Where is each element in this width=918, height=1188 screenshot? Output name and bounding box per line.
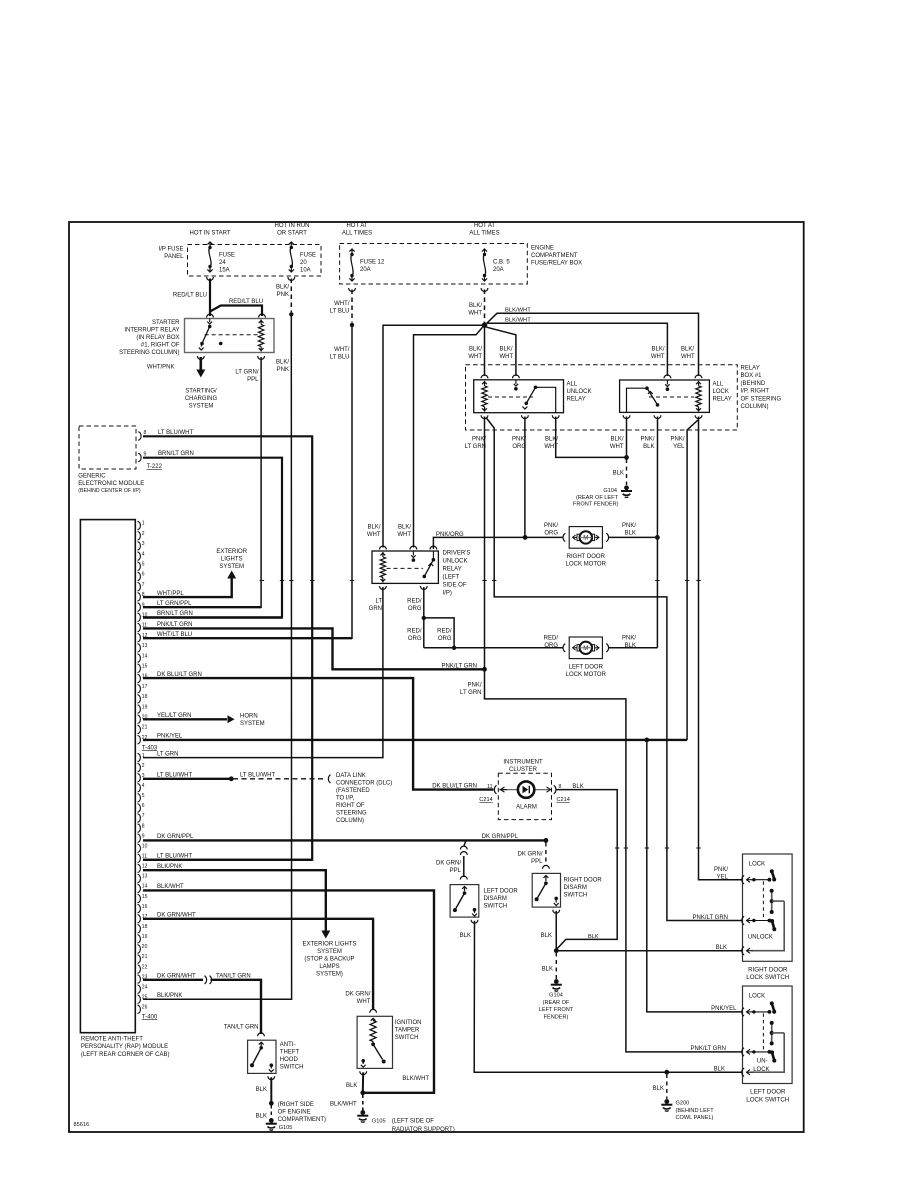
svg-text:THEFT: THEFT	[280, 1049, 300, 1055]
svg-text:(LEFT SIDE OF: (LEFT SIDE OF	[392, 1119, 435, 1125]
svg-text:CLUSTER: CLUSTER	[509, 767, 538, 773]
relay box #1 dashed enclosure	[466, 365, 738, 430]
svg-text:LT BLU/WHT: LT BLU/WHT	[158, 430, 193, 436]
remote anti-theft personality (RAP) module box	[80, 520, 135, 1033]
svg-text:IGNITION: IGNITION	[395, 1020, 422, 1026]
svg-text:DK GRN/PPL: DK GRN/PPL	[482, 834, 519, 840]
svg-text:LOCK: LOCK	[749, 994, 765, 1000]
svg-text:WHT: WHT	[610, 444, 624, 450]
all lock relay	[664, 375, 671, 378]
alarm indicator lamp	[499, 789, 519, 791]
wire PNK/BLK from all-lock relay to door lock motors	[656, 417, 658, 648]
wire BRN/LT GRN RAP pin 10	[143, 616, 282, 618]
svg-text:TAN/LT GRN: TAN/LT GRN	[216, 974, 251, 980]
svg-text:BRN/LT GRN: BRN/LT GRN	[158, 451, 194, 457]
svg-text:CHARGING: CHARGING	[185, 396, 218, 402]
svg-text:ORG: ORG	[408, 636, 422, 642]
wire PNK/BLK right motor to junction	[608, 536, 656, 538]
svg-text:BLK/: BLK/	[398, 525, 411, 531]
wire BLK/PNK from fuse 20 to RAP pin 25	[290, 279, 292, 313]
wire LT BLU/WHT RAP T-400 pin 11	[143, 859, 312, 861]
wire BLK/WHT upper branch to all-lock relay coil	[487, 313, 699, 376]
svg-text:ELECTRONIC MODULE: ELECTRONIC MODULE	[78, 481, 144, 487]
svg-text:(STOP & BACKUP: (STOP & BACKUP	[304, 957, 354, 963]
wire BLK dashed to ground G105	[270, 1105, 272, 1119]
svg-text:RELAY: RELAY	[443, 567, 462, 573]
svg-text:RIGHT DOOR: RIGHT DOOR	[567, 554, 606, 560]
svg-text:LEFT DOOR: LEFT DOOR	[569, 664, 604, 670]
svg-text:PNK/LT GRN: PNK/LT GRN	[691, 1046, 726, 1052]
svg-text:9: 9	[142, 833, 145, 839]
svg-text:RADIATOR SUPPORT): RADIATOR SUPPORT)	[392, 1127, 455, 1133]
svg-text:COMPARTMENT: COMPARTMENT	[531, 253, 578, 259]
svg-text:DRIVER'S: DRIVER'S	[443, 551, 471, 557]
svg-text:BLK: BLK	[714, 1067, 725, 1073]
svg-text:WHT: WHT	[681, 354, 695, 360]
instrument cluster dashed box	[498, 773, 551, 819]
svg-text:WHT/LT BLU: WHT/LT BLU	[157, 632, 192, 638]
svg-text:RIGHT OF: RIGHT OF	[336, 803, 365, 809]
svg-text:LT BLU: LT BLU	[330, 355, 350, 361]
junction PNK/YEL branch to left door lock switch	[644, 738, 649, 743]
wire BLK/WHT second branch to all-lock relay switch	[488, 323, 668, 376]
wire PNK/ORG from driver's unlock relay to right door lock motor	[433, 537, 563, 549]
svg-text:BLK: BLK	[653, 1086, 664, 1092]
svg-text:COLUMN): COLUMN)	[336, 818, 364, 824]
svg-text:10A: 10A	[300, 268, 311, 274]
wire BLK to ground G200	[666, 1074, 668, 1099]
svg-text:(REAR OF: (REAR OF	[543, 1000, 570, 1006]
svg-text:24: 24	[219, 260, 226, 266]
svg-text:SIDE OF: SIDE OF	[443, 583, 467, 589]
generic electronic module dashed box	[79, 426, 136, 469]
svg-text:BLK/PNK: BLK/PNK	[157, 993, 182, 999]
svg-text:15: 15	[142, 894, 148, 900]
svg-text:21: 21	[142, 725, 148, 731]
svg-text:19: 19	[142, 934, 148, 940]
svg-text:PERSONALITY (RAP) MODULE: PERSONALITY (RAP) MODULE	[81, 1044, 168, 1050]
svg-text:SWITCH: SWITCH	[484, 904, 508, 910]
right door disarm switch	[543, 865, 550, 868]
svg-text:PNK/: PNK/	[670, 437, 684, 443]
svg-text:17: 17	[142, 684, 148, 690]
svg-text:2: 2	[142, 531, 145, 537]
svg-text:LEFT DOOR: LEFT DOOR	[484, 889, 519, 895]
svg-text:SWITCH: SWITCH	[395, 1035, 419, 1041]
svg-text:26: 26	[142, 1005, 148, 1011]
starter interrupt relay coil	[259, 321, 264, 323]
svg-text:HOT AT: HOT AT	[474, 223, 495, 229]
svg-text:FRONT FENDER): FRONT FENDER)	[573, 502, 619, 508]
svg-text:BLK: BLK	[460, 933, 471, 939]
svg-text:OF ENGINE: OF ENGINE	[278, 1110, 311, 1116]
ground G104 rear of left front fender (lower)	[554, 979, 559, 984]
svg-text:SYSTEM): SYSTEM)	[316, 972, 343, 978]
svg-text:ORG: ORG	[544, 531, 558, 537]
wire LT GRN/PPL from relay to RAP pin 9	[143, 357, 261, 607]
svg-text:SWITCH: SWITCH	[280, 1064, 304, 1070]
junction BLK at G105	[269, 1101, 274, 1106]
right door lock motor	[563, 533, 565, 541]
circuit breaker C.B. 5 20A	[484, 249, 486, 253]
svg-text:15A: 15A	[219, 268, 230, 274]
svg-text:24: 24	[142, 984, 148, 990]
svg-text:WHT: WHT	[500, 354, 514, 360]
svg-text:10: 10	[142, 843, 148, 849]
svg-text:BLK: BLK	[541, 933, 552, 939]
connector T-222 pin 9	[138, 453, 141, 461]
svg-text:ORG: ORG	[544, 643, 558, 649]
svg-text:ALL: ALL	[713, 382, 724, 388]
wire DK BLU/LT GRN RAP pin 16 to instrument cluster	[143, 678, 494, 790]
connector T-222 pin 8	[138, 432, 141, 440]
svg-text:BLK: BLK	[625, 643, 636, 649]
svg-text:STEERING COLUMN): STEERING COLUMN)	[119, 350, 179, 356]
svg-text:HOOD: HOOD	[280, 1057, 299, 1063]
svg-text:RELAY: RELAY	[713, 397, 732, 403]
wire BLK/PNK RAP T-400 pin 12 to stop lamps	[143, 870, 326, 931]
wire DK GRN/PPL RAP T-400 pin 9 to disarm switches	[143, 839, 545, 841]
svg-text:RED/: RED/	[407, 629, 422, 635]
svg-text:5: 5	[142, 793, 145, 799]
svg-text:PANEL: PANEL	[164, 254, 184, 260]
svg-text:PNK/: PNK/	[544, 523, 558, 529]
svg-text:EXTERIOR LIGHTS: EXTERIOR LIGHTS	[302, 942, 356, 948]
svg-text:STARTER: STARTER	[152, 320, 180, 326]
svg-text:BLK/WHT: BLK/WHT	[505, 318, 531, 324]
alignment tick marks	[260, 580, 264, 582]
wire LT GRN from driver's unlock relay to RAP pin 1 (T-403)	[143, 587, 383, 758]
wire BLK/WHT down to all-unlock relay coil	[484, 325, 486, 376]
svg-text:LIGHTS: LIGHTS	[221, 557, 243, 563]
svg-text:LOCK: LOCK	[749, 862, 765, 868]
svg-text:BOX #1: BOX #1	[741, 373, 763, 379]
svg-text:BLK/: BLK/	[367, 525, 380, 531]
ground G105 left side of radiator support	[360, 1110, 365, 1115]
svg-text:11: 11	[487, 784, 492, 790]
svg-text:BLK/WHT: BLK/WHT	[330, 1102, 357, 1108]
svg-text:BLK/PNK: BLK/PNK	[157, 864, 182, 870]
svg-text:BLK: BLK	[643, 444, 654, 450]
svg-text:WHT: WHT	[397, 532, 411, 538]
svg-text:18: 18	[142, 924, 148, 930]
svg-text:BLK: BLK	[256, 1087, 267, 1093]
wire BLK from cluster to ground net	[556, 790, 618, 950]
svg-text:PPL: PPL	[247, 377, 259, 383]
svg-text:STEERING: STEERING	[336, 811, 367, 817]
svg-text:6: 6	[142, 572, 145, 578]
ground G104 rear of left front fender	[624, 485, 629, 490]
wire LT BLU/WHT RAP T-400 pin 3 to data link connector	[143, 778, 230, 780]
svg-text:ALL TIMES: ALL TIMES	[342, 231, 372, 237]
inline connector on pin 23 wire	[205, 976, 207, 984]
svg-text:PNK/ORG: PNK/ORG	[436, 532, 464, 538]
svg-text:LOCK: LOCK	[753, 1067, 769, 1073]
svg-text:13: 13	[142, 874, 148, 880]
svg-text:(LEFT: (LEFT	[443, 575, 460, 581]
wire WHT/LT BLU RAP pin 12	[143, 637, 352, 639]
svg-text:BLK/: BLK/	[610, 437, 623, 443]
svg-text:FUSE: FUSE	[300, 253, 316, 259]
svg-text:RED/: RED/	[437, 629, 452, 635]
wire DK GRN/WHT RAP T-400 pin 17 to ignition tamper switch	[143, 919, 373, 1010]
svg-text:BLK/: BLK/	[681, 347, 694, 353]
wire BLK/WHT from all-unlock relay to G104 junction	[556, 417, 626, 458]
wire RED/LT BLU branch to relay coil	[210, 306, 262, 317]
svg-text:YEL/LT GRN: YEL/LT GRN	[157, 713, 191, 719]
svg-text:5: 5	[142, 562, 145, 568]
ground G105 right side of engine compartment	[269, 1118, 274, 1123]
anti-theft hood switch	[258, 1033, 265, 1036]
all unlock relay	[481, 375, 488, 378]
svg-text:G105: G105	[372, 1119, 386, 1125]
svg-text:DATA LINK: DATA LINK	[336, 773, 366, 779]
svg-text:I/P, RIGHT: I/P, RIGHT	[741, 389, 770, 395]
wire PNK/ORG from all-unlock relay to motor line	[524, 417, 526, 538]
svg-text:DK BLU/LT GRN: DK BLU/LT GRN	[432, 783, 477, 789]
svg-text:BLK/: BLK/	[469, 347, 482, 353]
svg-text:M: M	[583, 536, 588, 542]
junction BLK/WHT main splice	[482, 322, 488, 328]
svg-text:DK GRN/: DK GRN/	[436, 861, 461, 867]
svg-text:PNK/LT GRN: PNK/LT GRN	[157, 622, 192, 628]
svg-text:SYSTEM: SYSTEM	[189, 404, 214, 410]
svg-text:BLK: BLK	[542, 967, 553, 973]
svg-text:SYSTEM: SYSTEM	[317, 949, 342, 955]
svg-text:PNK/: PNK/	[640, 437, 654, 443]
svg-text:85616: 85616	[74, 1122, 90, 1128]
svg-text:LOCK MOTOR: LOCK MOTOR	[566, 561, 607, 567]
svg-text:PNK/: PNK/	[622, 636, 636, 642]
svg-text:HOT AT: HOT AT	[346, 223, 367, 229]
svg-text:22: 22	[142, 964, 148, 970]
svg-text:13: 13	[142, 643, 148, 649]
svg-text:COLUMN): COLUMN)	[741, 404, 769, 410]
svg-text:BLK/: BLK/	[276, 360, 289, 366]
wire PNK/LT GRN from all-unlock relay down	[484, 417, 486, 670]
svg-text:ORG: ORG	[408, 606, 422, 612]
svg-text:16: 16	[142, 904, 148, 910]
svg-text:REMOTE ANTI-THEFT: REMOTE ANTI-THEFT	[81, 1037, 143, 1043]
svg-text:CONNECTOR (DLC): CONNECTOR (DLC)	[336, 781, 392, 787]
wire PNK/LT GRN branch to right door lock switch	[486, 418, 742, 921]
page border frame	[69, 222, 804, 1132]
wire BLK from right door disarm switch	[555, 911, 557, 950]
svg-text:PNK: PNK	[277, 292, 289, 298]
svg-text:BLK/WHT: BLK/WHT	[402, 1076, 429, 1082]
svg-text:ALL TIMES: ALL TIMES	[469, 231, 499, 237]
svg-text:UNLOCK: UNLOCK	[443, 559, 468, 565]
starter interrupt relay	[207, 314, 214, 317]
wire BLK to right door lock switch	[556, 950, 741, 952]
svg-text:(BEHIND CENTER OF I/P): (BEHIND CENTER OF I/P)	[78, 488, 141, 494]
svg-text:LT GRN/: LT GRN/	[235, 370, 258, 376]
svg-text:I/P FUSE: I/P FUSE	[159, 247, 184, 253]
svg-text:TO I/P,: TO I/P,	[336, 796, 354, 802]
wire BLK/WHT dashed to ground	[362, 1095, 364, 1111]
wire BLK from hood switch	[270, 1077, 272, 1101]
svg-text:6: 6	[142, 803, 145, 809]
svg-text:14: 14	[142, 884, 148, 890]
svg-text:LT BLU/WHT: LT BLU/WHT	[157, 773, 192, 779]
wire YEL/LT GRN RAP pin 20 to horn system	[143, 718, 227, 720]
svg-text:C214: C214	[479, 797, 492, 803]
fuse 12 20A	[351, 249, 353, 253]
left door disarm switch	[460, 876, 467, 879]
svg-text:20A: 20A	[493, 267, 504, 273]
svg-text:(IN RELAY BOX: (IN RELAY BOX	[136, 335, 179, 341]
wire BLK/WHT branch to driver's unlock relay switch	[414, 327, 483, 547]
fuse 24 15A	[209, 242, 211, 246]
svg-text:ANTI-: ANTI-	[280, 1042, 296, 1048]
svg-text:3: 3	[142, 541, 145, 547]
svg-text:LAMPS: LAMPS	[319, 964, 339, 970]
svg-text:C214: C214	[557, 797, 570, 803]
svg-text:(BEHIND LEFT: (BEHIND LEFT	[676, 1108, 715, 1114]
wire BLK/WHT to all-unlock relay switch	[487, 327, 516, 376]
svg-text:(REAR OF LEFT: (REAR OF LEFT	[576, 495, 619, 501]
svg-text:UN-: UN-	[757, 1058, 768, 1064]
svg-text:I/P): I/P)	[443, 591, 452, 597]
svg-text:WHT: WHT	[468, 354, 482, 360]
svg-text:1: 1	[142, 753, 145, 759]
cluster pin 8 connector C214	[554, 785, 556, 793]
svg-text:COWL PANEL): COWL PANEL)	[676, 1115, 714, 1121]
wire BLK dashed to ground G104	[555, 953, 557, 980]
svg-text:OR START: OR START	[277, 231, 307, 237]
svg-text:UNLOCK: UNLOCK	[567, 389, 592, 395]
svg-text:BLK: BLK	[588, 934, 599, 940]
svg-text:PNK: PNK	[277, 367, 289, 373]
svg-text:20: 20	[142, 944, 148, 950]
relay internal dashed link	[205, 334, 260, 336]
svg-text:LT GRN: LT GRN	[157, 751, 178, 757]
junction PNK/ORG	[523, 535, 528, 540]
svg-text:DK GRN/WHT: DK GRN/WHT	[157, 974, 196, 980]
svg-text:25: 25	[142, 994, 148, 1000]
svg-text:DK GRN/: DK GRN/	[345, 992, 370, 998]
svg-text:LT BLU: LT BLU	[330, 309, 350, 315]
svg-text:YEL: YEL	[717, 874, 729, 880]
svg-text:BLK: BLK	[256, 1114, 267, 1120]
wire TAN/LT GRN to anti-theft hood switch	[211, 980, 262, 1034]
svg-text:HOT IN START: HOT IN START	[189, 231, 230, 237]
svg-text:RED/LT BLU: RED/LT BLU	[173, 293, 207, 299]
svg-text:DK BLU/LT GRN: DK BLU/LT GRN	[157, 672, 202, 678]
svg-text:WHT: WHT	[357, 999, 371, 1005]
junction RED/ORG rejoin	[452, 646, 456, 650]
svg-text:LT GRN: LT GRN	[460, 690, 481, 696]
svg-text:PNK/: PNK/	[467, 683, 481, 689]
wire DK GRN/WHT RAP T-400 pin 23 to anti-theft hood switch	[143, 979, 203, 981]
svg-text:BRN/LT GRN: BRN/LT GRN	[157, 611, 193, 617]
svg-text:HOT IN RUN: HOT IN RUN	[275, 223, 310, 229]
wire BLK/WHT left branch to driver's unlock relay coil	[383, 325, 485, 547]
ground G200 behind left cowl panel	[664, 1099, 669, 1104]
junction PNK/BLK	[655, 535, 660, 540]
svg-text:(LEFT REAR CORNER OF CAB): (LEFT REAR CORNER OF CAB)	[81, 1052, 170, 1058]
svg-text:LOCK SWITCH: LOCK SWITCH	[746, 1096, 789, 1103]
svg-text:DK GRN/WHT: DK GRN/WHT	[157, 913, 196, 919]
svg-text:SWITCH: SWITCH	[564, 893, 588, 899]
svg-text:LOCK: LOCK	[713, 389, 729, 395]
wire WHT/PNK to starting/charging system	[200, 357, 203, 370]
svg-text:19: 19	[142, 704, 148, 710]
wire LT GRN/PPL RAP pin 9	[143, 606, 261, 608]
svg-text:LOCK MOTOR: LOCK MOTOR	[566, 672, 607, 678]
svg-text:LT GRN/PPL: LT GRN/PPL	[157, 601, 192, 607]
svg-text:EXTERIOR: EXTERIOR	[216, 549, 247, 555]
svg-text:ALL: ALL	[567, 382, 578, 388]
svg-text:LT BLU/WHT: LT BLU/WHT	[157, 854, 192, 860]
wire DK GRN/PPL dashed to right door disarm switch	[545, 843, 547, 867]
svg-text:PNK/YEL: PNK/YEL	[711, 1006, 737, 1012]
left door lock switch	[743, 986, 793, 1084]
svg-text:20: 20	[300, 260, 307, 266]
svg-text:INTERRUPT RELAY: INTERRUPT RELAY	[124, 328, 179, 334]
svg-text:BLK: BLK	[716, 945, 727, 951]
wire LT BLU/WHT from T-222 to RAP pin 11 (T-403)	[143, 436, 312, 860]
svg-text:RELAY: RELAY	[741, 366, 760, 372]
ignition tamper switch	[370, 1009, 377, 1012]
wire WHT/PPL RAP pin 8 to exterior lights system	[143, 575, 232, 597]
svg-text:4: 4	[142, 551, 145, 557]
svg-text:ALARM: ALARM	[516, 805, 537, 811]
svg-text:BLK/: BLK/	[500, 347, 513, 353]
svg-text:T-222: T-222	[147, 464, 163, 470]
svg-text:GENERIC: GENERIC	[78, 474, 106, 480]
wire BLK from left door disarm switch to G200	[474, 921, 741, 1072]
svg-text:WHT: WHT	[468, 311, 482, 317]
svg-text:UNLOCK: UNLOCK	[748, 935, 773, 941]
svg-text:BLK/WHT: BLK/WHT	[505, 307, 531, 313]
wire BLK/WHT from all-lock relay to G104 junction	[626, 417, 628, 457]
svg-text:RED/LT BLU: RED/LT BLU	[229, 299, 263, 305]
svg-text:SYSTEM: SYSTEM	[240, 721, 265, 727]
svg-text:#1, RIGHT OF: #1, RIGHT OF	[141, 343, 180, 349]
RAP connector T-400 pins 1-26	[138, 753, 141, 761]
svg-text:7: 7	[142, 582, 145, 588]
svg-text:YEL: YEL	[673, 444, 685, 450]
svg-text:RELAY: RELAY	[567, 397, 586, 403]
svg-text:TAMPER: TAMPER	[395, 1028, 420, 1034]
svg-text:BLK: BLK	[572, 784, 583, 790]
svg-text:PNK/YEL: PNK/YEL	[157, 734, 183, 740]
svg-text:RED/: RED/	[407, 599, 422, 605]
svg-text:T-403: T-403	[142, 745, 158, 751]
svg-text:PNK/LT GRN: PNK/LT GRN	[693, 915, 728, 921]
svg-text:WHT/PNK: WHT/PNK	[147, 365, 175, 371]
svg-text:RIGHT DOOR: RIGHT DOOR	[564, 878, 603, 884]
svg-text:G105: G105	[279, 1125, 293, 1131]
svg-text:8: 8	[142, 823, 145, 829]
svg-text:BLK: BLK	[346, 1083, 357, 1089]
svg-text:WHT: WHT	[367, 532, 381, 538]
junction DK GRN/PPL	[544, 838, 549, 843]
svg-text:PPL: PPL	[531, 859, 543, 865]
I/P fuse panel dashed box	[188, 245, 322, 277]
svg-text:G104: G104	[603, 488, 617, 494]
engine compartment fuse/relay box dashed box	[340, 244, 528, 285]
svg-text:LEFT DOOR: LEFT DOOR	[750, 1089, 786, 1096]
wire WHT/LT BLU from fuse 12 to RAP pin 12	[351, 290, 353, 323]
svg-text:TAN/LT GRN: TAN/LT GRN	[224, 1025, 259, 1031]
svg-text:BLK/: BLK/	[651, 347, 664, 353]
wire PNK/YEL branch to RAP pin 22 wire	[687, 420, 698, 740]
svg-text:20A: 20A	[360, 267, 371, 273]
svg-text:LOCK SWITCH: LOCK SWITCH	[746, 974, 789, 981]
svg-text:FUSE/RELAY BOX: FUSE/RELAY BOX	[531, 261, 582, 267]
